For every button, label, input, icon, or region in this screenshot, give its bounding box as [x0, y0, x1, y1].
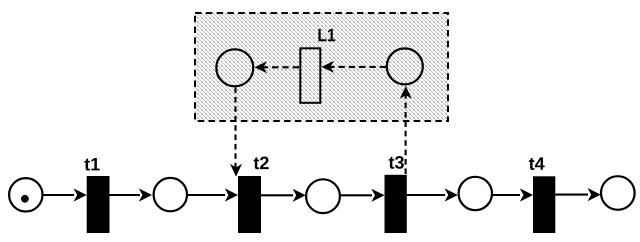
transition t3 (bar)	[385, 175, 407, 233]
dashed arc t3 to PR (vertical)	[405, 92, 407, 174]
dashed hatched box (aggregation region)	[195, 13, 448, 121]
arc t3 to p3	[407, 194, 445, 196]
arc t2 to p2	[261, 194, 293, 196]
place p0 (marked, leftmost)	[9, 178, 42, 211]
label t2	[254, 157, 269, 170]
place p4 (rightmost)	[601, 176, 635, 210]
place p1	[154, 178, 187, 211]
arc p2 to t3	[340, 194, 372, 196]
transition L1 (open rectangle)	[300, 48, 320, 103]
dashed arc L1 to PL	[258, 66, 299, 68]
place p3	[459, 177, 492, 210]
token dot in p0	[21, 195, 29, 203]
arc t1 to p1	[110, 194, 141, 196]
place PL (left circle in box)	[216, 49, 253, 86]
arc p3 to t4	[492, 194, 520, 196]
dashed arc PR to L1	[325, 66, 386, 68]
label t1	[84, 158, 99, 171]
transition t2 (bar)	[238, 176, 261, 233]
label L1	[318, 29, 335, 41]
place PR (right circle in box)	[387, 48, 423, 84]
place p2	[306, 179, 340, 213]
transition t1 (bar)	[87, 176, 110, 233]
arc t4 to p4	[555, 194, 588, 196]
transition t4 (bar)	[533, 176, 555, 233]
label t4	[529, 157, 545, 170]
arc p0 to t1	[43, 194, 75, 196]
arc p1 to t2	[187, 194, 225, 196]
label t3	[389, 156, 404, 169]
dashed arc PL to t2 (vertical)	[234, 88, 236, 171]
